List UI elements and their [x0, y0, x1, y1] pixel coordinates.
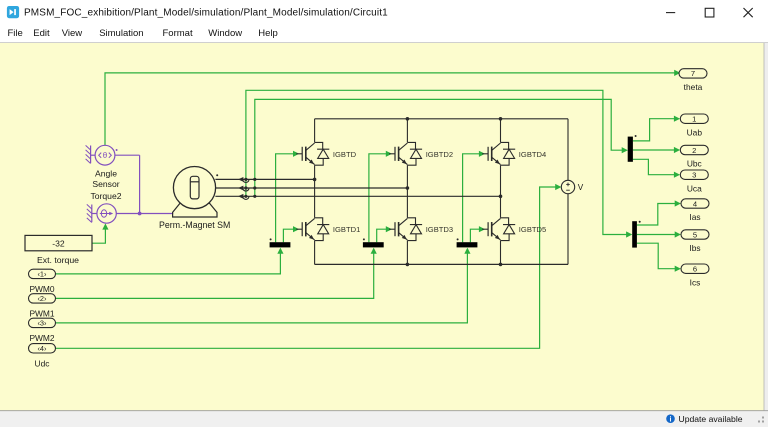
wire PWM0 input to demux — [56, 248, 284, 274]
wire PWM1 input to demux — [56, 248, 377, 299]
svg-text:Uab: Uab — [687, 127, 703, 137]
wire theta: angle sensor to output port 7 — [105, 70, 680, 146]
wire mux to port Ubc — [633, 147, 680, 153]
wire bridge leg at x=314.6 — [314, 119, 316, 265]
svg-text:Ias: Ias — [689, 212, 700, 222]
svg-text:‹4›: ‹4› — [37, 344, 47, 353]
angle sensor — [86, 145, 118, 165]
wire mux to port Uab — [633, 116, 680, 141]
svg-text:View: View — [62, 28, 83, 39]
svg-text:Uca: Uca — [687, 183, 702, 193]
transistor IGBTD5 — [482, 218, 546, 241]
wire phase A from motor to bridge leg — [215, 177, 316, 183]
wire mechanical shaft: angle sensor to node — [115, 154, 140, 156]
svg-text:Window: Window — [208, 28, 242, 39]
window title text — [24, 8, 388, 19]
svg-text:Sensor: Sensor — [92, 179, 119, 189]
svg-text:PWM0: PWM0 — [29, 284, 54, 294]
output port 2 Ubc — [680, 145, 708, 168]
signal mux U (voltages) — [628, 135, 637, 162]
torque source Torque2 — [87, 204, 117, 223]
transistor IGBTD1 — [296, 218, 360, 241]
input port 2 PWM1 — [29, 294, 56, 319]
output port 5 Ibs — [681, 230, 709, 253]
svg-text:‹1›: ‹1› — [37, 270, 47, 279]
output port 1 Uab — [680, 114, 708, 137]
svg-text:Help: Help — [258, 28, 278, 39]
svg-text:IGBTD: IGBTD — [333, 150, 357, 159]
wire gate signal PWM2 to lower IGBT — [470, 226, 485, 242]
input port 4 Udc — [29, 344, 56, 369]
svg-text:Angle: Angle — [95, 169, 117, 179]
label motor — [159, 220, 230, 230]
svg-text:PMSM_FOC_exhibition/Plant_Mode: PMSM_FOC_exhibition/Plant_Model/simulati… — [24, 8, 388, 19]
output port 7 theta — [679, 69, 707, 92]
menu bar — [8, 28, 278, 39]
svg-text:-32: -32 — [52, 239, 65, 249]
svg-text:6: 6 — [693, 265, 697, 274]
signal mux I (currents) — [632, 221, 641, 248]
svg-text:Ibs: Ibs — [689, 243, 700, 253]
signal demux PWM0 — [270, 238, 291, 247]
svg-text:PWM1: PWM1 — [29, 309, 54, 319]
controlled voltage source V (DC link) — [561, 119, 574, 265]
transistor IGBTD3 — [389, 218, 453, 241]
svg-text:1: 1 — [692, 115, 696, 124]
svg-text:File: File — [8, 28, 23, 39]
svg-text:θ: θ — [103, 151, 108, 160]
wire gate signal PWM0 to lower IGBT — [283, 226, 299, 242]
svg-text:Perm.-Magnet SM: Perm.-Magnet SM — [159, 220, 230, 230]
wire mux to port Ibs — [637, 231, 681, 237]
svg-text:Ics: Ics — [690, 277, 701, 287]
label angle sensor — [90, 169, 121, 201]
svg-text:V: V — [578, 183, 584, 192]
svg-text:Torque2: Torque2 — [90, 191, 121, 201]
input port 3 PWM2 — [29, 318, 56, 343]
svg-text:4: 4 — [693, 199, 697, 208]
transistor IGBTD — [296, 142, 356, 165]
svg-text:Ext. torque: Ext. torque — [37, 255, 79, 265]
transistor IGBTD4 — [482, 142, 546, 165]
svg-text:Format: Format — [163, 28, 193, 39]
svg-text:5: 5 — [693, 230, 697, 239]
maximize button — [705, 8, 714, 17]
svg-text:‹3›: ‹3› — [37, 319, 47, 328]
wire bridge leg at x=500.5 — [500, 119, 502, 265]
output port 3 Uca — [680, 170, 708, 193]
wire mechanical shaft vertical — [139, 155, 141, 213]
wire current measurement to mux Iabc — [246, 90, 632, 237]
wire PWM2 input to demux — [56, 248, 471, 323]
wire mux to port Uca — [633, 159, 680, 178]
signal demux PWM2 — [457, 238, 478, 247]
svg-text:i: i — [670, 417, 672, 424]
constant block Ext. torque (-32) — [25, 235, 92, 264]
svg-text:theta: theta — [684, 82, 703, 92]
node mechanical junction — [138, 212, 142, 216]
wire gate signal PWM1 to lower IGBT — [377, 226, 392, 242]
status bar — [0, 411, 768, 427]
wire Udc input to controlled voltage source — [56, 184, 562, 348]
menu separator — [0, 42, 768, 44]
app icon — [7, 6, 19, 18]
svg-text:Ubc: Ubc — [687, 159, 702, 169]
output port 4 Ias — [681, 199, 709, 222]
wire mux to port Ics — [637, 243, 681, 272]
input port 1 PWM0 — [29, 269, 56, 294]
svg-text:PWM2: PWM2 — [29, 333, 54, 343]
svg-text:7: 7 — [691, 69, 695, 78]
wire gate signal PWM2 to upper IGBT — [463, 151, 486, 243]
window title bar — [0, 0, 768, 43]
wire Ext. torque to torque source — [92, 223, 109, 243]
svg-text:2: 2 — [692, 146, 696, 155]
svg-text:IGBTD2: IGBTD2 — [426, 150, 453, 159]
wire DC bus positive rail — [315, 117, 568, 121]
svg-text:IGBTD3: IGBTD3 — [426, 225, 453, 234]
svg-text:‹2›: ‹2› — [37, 294, 47, 303]
wire mux to port Ias — [637, 200, 681, 225]
svg-text:IGBTD5: IGBTD5 — [519, 225, 546, 234]
motor Perm.-Magnet SM — [173, 167, 219, 218]
svg-text:Udc: Udc — [35, 359, 50, 369]
svg-text:Edit: Edit — [33, 28, 50, 39]
label V — [578, 183, 584, 192]
svg-text:Simulation: Simulation — [99, 28, 143, 39]
transistor IGBTD2 — [389, 142, 453, 165]
svg-text:3: 3 — [692, 171, 696, 180]
signal demux PWM1 — [363, 238, 384, 247]
output port 6 Ics — [681, 264, 709, 287]
minimize button — [666, 12, 675, 14]
wire gate signal PWM0 to upper IGBT — [276, 151, 300, 243]
wire bridge leg at x=407.4 — [406, 119, 408, 265]
close button — [744, 8, 753, 17]
wire DC bus negative rail — [315, 263, 568, 267]
wire mechanical shaft: torque sensor to motor — [116, 213, 173, 215]
wire gate signal PWM1 to upper IGBT — [369, 151, 392, 243]
wire phase C from motor to bridge leg — [215, 194, 502, 200]
wire voltage measurement to mux Uabc — [255, 99, 628, 196]
svg-text:IGBTD4: IGBTD4 — [519, 150, 546, 159]
svg-text:IGBTD1: IGBTD1 — [333, 225, 360, 234]
wire phase B from motor to bridge leg — [215, 186, 409, 192]
svg-text:Update available: Update available — [679, 414, 743, 424]
